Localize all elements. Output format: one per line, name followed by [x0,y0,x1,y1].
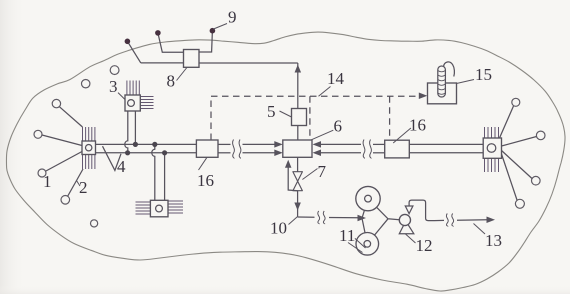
label 9 leader [214,24,228,30]
wire main pipe top line left section [96,143,197,145]
pipe pair down to bottom hydrant [152,144,155,200]
label 8 leader [177,68,187,81]
ray to circle right lower [502,151,533,179]
discharge jog [409,200,434,221]
dashed riser from box16L [210,96,212,140]
ray to sprinkler circle left [42,135,82,146]
label 2 leader [77,181,81,187]
scattered circle upper b [110,66,119,75]
label 16 right leader [393,128,411,143]
svg-text:1: 1 [43,172,52,191]
pump 12 base triangle [399,221,414,234]
suction line to pumps [298,216,315,218]
component 3 box [125,95,140,111]
sprinkler circle top right [512,98,520,106]
sprinkler circle upper-left [52,99,60,107]
pipe break on discharge line [446,214,453,227]
pump 12 circle [399,214,410,225]
ray to circle right upper [502,137,537,147]
comb hatch above component 3 [127,81,139,96]
scattered circle upper a [82,80,90,88]
svg-text:14: 14 [327,69,345,88]
label 3 leader [118,93,125,100]
box 16 right [385,140,410,158]
label 7 leader [302,169,317,180]
discharge line [435,219,445,221]
svg-text:2: 2 [79,178,88,197]
ray to circle bottom right [502,154,518,200]
right hydrant circle [487,144,496,153]
V mark 4 on pipe [103,146,122,170]
pipe break on suction line [318,211,325,224]
box 16 left [196,140,218,157]
head B dot [155,30,161,36]
pipe pair from component 3 down to main pipe [125,111,128,153]
line box6 to valve 7 [297,157,299,171]
wire pipe break to box16R [373,143,385,145]
sprinkler circle 1 [38,169,46,177]
svg-text:16: 16 [197,171,214,190]
label 10 leader [289,217,298,225]
wire pipe box16L to break [218,143,231,145]
svg-text:11: 11 [339,226,355,245]
box 6 [283,140,312,157]
dashed horizontal control line 14 [211,95,421,97]
svg-text:6: 6 [334,117,343,136]
junction dot bottom line x127 [125,150,130,155]
label 14 leader [319,87,331,97]
ray to sprinkler circle 1 [45,152,82,172]
scattered circle lower [91,220,98,227]
right hydrant box [483,138,501,158]
head A dot [125,39,131,45]
ray to sprinkler circle 2 [68,169,84,197]
dashed drop to box16R [389,96,391,140]
riser line from supply to box 6 [297,63,299,109]
line valve 7 down with arrow [297,191,299,217]
supply line right of box 8 to riser [199,62,298,64]
svg-text:13: 13 [485,231,502,250]
svg-text:4: 4 [117,157,126,176]
pump 11 top wheel [356,186,380,210]
valve 7 body [293,172,303,191]
comb hatch below right hydrant [485,158,499,172]
riser up arrow [295,65,302,73]
wire pipe break to box6 arrows [243,143,276,145]
comb hatch left of bottom hydrant [136,202,151,214]
component 15 hook [444,62,455,77]
svg-text:16: 16 [409,116,426,135]
ray to sprinkler circle upper-left [60,107,83,127]
comb hatch above right hydrant [485,127,499,138]
arrowheads into box 6 left [274,141,283,148]
discharge arrow [487,217,496,224]
arrow into box 15 [419,93,428,100]
bottom hydrant box [150,200,168,217]
component 15 box [428,83,457,104]
sprinkler circle right upper [536,131,545,140]
comb hatch right of component 3 [140,97,153,109]
label 12 leader [406,234,416,243]
pipe break left [233,140,235,159]
junction dot top line x154 [152,142,157,147]
pump 11 connecting funnel lines [362,199,399,244]
ray to circle top right [500,106,514,138]
svg-text:12: 12 [416,236,433,255]
sprinkler circle right lower [532,176,541,185]
svg-text:8: 8 [167,72,176,91]
comb hatch below left hydrant [83,155,95,170]
dashed drop to box 6 [309,96,311,140]
left hydrant circle [86,145,92,151]
comb hatch above left hydrant [83,127,95,141]
junction dot top line x135 [133,142,138,147]
arrow into pump junction [358,215,367,222]
svg-text:10: 10 [270,219,287,238]
label 13 leader [474,224,486,235]
label 11 leaders [348,238,366,252]
comb hatch right of bottom hydrant [168,201,183,213]
bypass with up arrow [288,168,297,191]
stem from head C [199,31,212,52]
check valve above pump 12 [405,206,413,214]
component 8 box [184,50,200,68]
label 15 leader [457,80,475,84]
wire main pipe bottom line left section [96,152,197,154]
sprinkler circle bottom right [515,199,524,208]
stem from head B [158,33,184,52]
svg-text:7: 7 [318,162,327,181]
label 6 leader [311,130,333,140]
component 15 coil capsule [438,66,446,97]
svg-text:3: 3 [109,77,118,96]
arrowheads into box 6 right [313,141,322,148]
pipe break right of box 6 [363,140,365,159]
label 5 leader [280,111,292,117]
sprinkler circle 2 [61,196,70,205]
component 3 circle [128,100,135,107]
supply line left of box 8 [141,62,184,64]
head C dot [210,28,216,34]
bottom hydrant circle [156,205,163,212]
pump 11 bottom wheel [356,233,379,256]
wire pipe box16R to right hydrant [409,143,483,145]
wire pipe box6 right arrows to break [321,143,361,145]
svg-text:9: 9 [228,8,237,27]
svg-text:5: 5 [267,102,276,121]
junction dot bottom line x164 [162,150,167,155]
left hydrant box [82,141,96,155]
sprinkler circle left [34,130,42,138]
svg-text:15: 15 [475,65,492,84]
label 16 left leader [199,157,208,170]
component 5 box [292,109,307,126]
stem from head A to supply line [127,41,140,63]
